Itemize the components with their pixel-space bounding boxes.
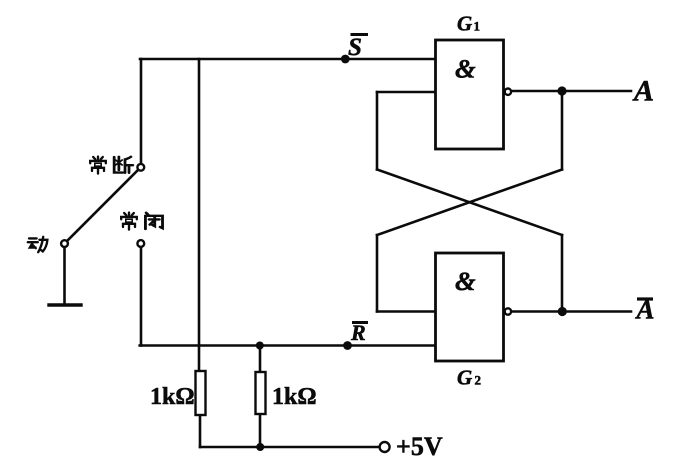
svg-text:2: 2 [475,373,482,388]
svg-text:S: S [348,34,362,61]
svg-text:&: & [455,266,476,296]
svg-text:+5V: +5V [396,432,443,461]
svg-text:1kΩ: 1kΩ [150,384,195,410]
svg-text:1: 1 [474,19,481,34]
svg-text:G: G [457,366,472,390]
svg-text:G: G [457,12,472,36]
svg-text:A: A [632,75,654,108]
svg-text:1kΩ: 1kΩ [272,384,317,410]
svg-text:&: & [455,54,476,84]
